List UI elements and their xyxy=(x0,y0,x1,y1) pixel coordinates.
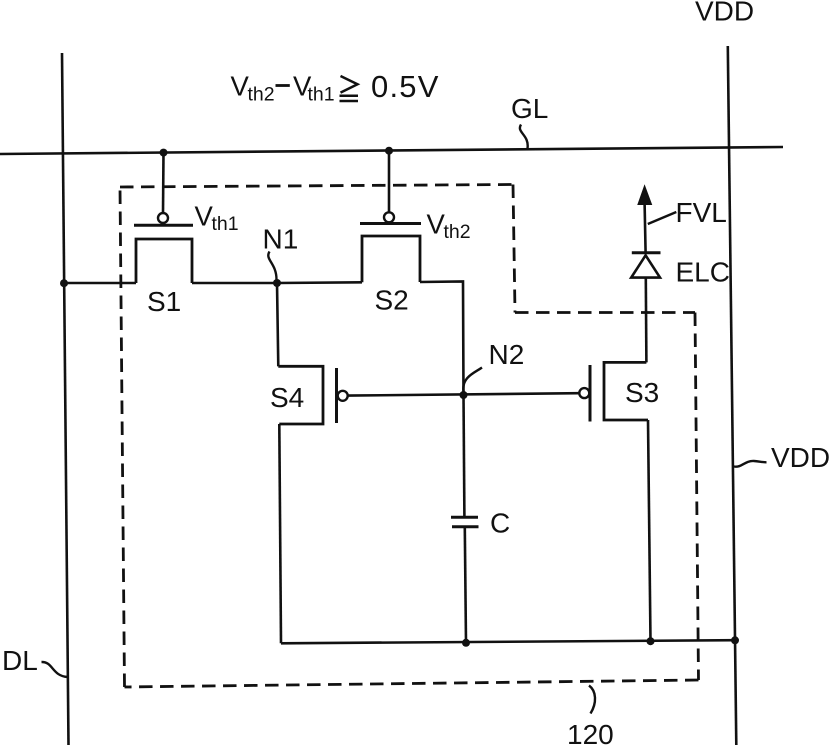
wire VDDL label leader xyxy=(734,461,767,467)
wire diode to arrow xyxy=(645,204,646,253)
node VDD label xyxy=(695,0,754,27)
value label Vth2-Vth1 >= 0.5V formula xyxy=(231,69,440,106)
svg-text:120: 120 xyxy=(567,719,614,745)
svg-text:th2: th2 xyxy=(444,221,471,243)
dashed pixel boundary box 120 xyxy=(120,185,699,688)
wire DL to S1 source xyxy=(64,282,136,285)
svg-text:FVL: FVL xyxy=(676,197,727,228)
wire DL label leader xyxy=(42,662,68,677)
wire bottom rail to VDD line xyxy=(281,640,735,643)
arrow to FVL xyxy=(638,186,651,204)
capacitor C label xyxy=(490,508,510,539)
svg-text:N1: N1 xyxy=(263,224,299,255)
svg-text:0.5V: 0.5V xyxy=(371,69,440,104)
wire N1 down to S4 xyxy=(277,283,278,366)
wire 120 label leader xyxy=(589,686,595,714)
value label Vth1 xyxy=(195,200,239,235)
svg-text:S2: S2 xyxy=(375,285,409,316)
wire power line VDD xyxy=(728,46,737,745)
greater-equal symbol of formula xyxy=(340,76,359,101)
diode ELC label xyxy=(676,257,730,288)
svg-text:GL: GL xyxy=(511,93,548,124)
svg-text:C: C xyxy=(490,508,510,539)
svg-text:ELC: ELC xyxy=(676,257,730,288)
node N2 label xyxy=(489,339,525,370)
diode ELC xyxy=(631,253,660,278)
wire GL label leader xyxy=(520,125,528,149)
node VDDL label xyxy=(771,442,832,473)
transistor S4 label xyxy=(270,382,304,413)
svg-text:VDD: VDD xyxy=(695,0,754,27)
transistor S3 xyxy=(579,362,648,421)
wire N1 label leader xyxy=(268,252,276,280)
wire capacitor to bottom rail xyxy=(465,528,466,643)
wire S3 drain down to bottom rail xyxy=(648,420,651,641)
wire diode to S3 xyxy=(644,278,647,363)
transistor S1 label xyxy=(147,286,181,317)
node N1 label xyxy=(263,224,299,255)
svg-text:S1: S1 xyxy=(147,286,181,317)
node GL label xyxy=(511,93,548,124)
svg-text:S3: S3 xyxy=(625,377,659,408)
wire N1 to S2 source xyxy=(277,281,362,284)
wire S4 gate to N2 to S3 gate xyxy=(348,393,579,395)
svg-text:th2: th2 xyxy=(248,84,275,106)
transistor S3 label xyxy=(625,377,659,408)
junction dot S3 on rail xyxy=(647,637,655,645)
node FVL label xyxy=(676,197,727,228)
transistor S2 label xyxy=(375,285,409,316)
wire N2 down to capacitor xyxy=(462,395,465,516)
svg-text:VDDL: VDDL xyxy=(771,442,832,473)
svg-text:N2: N2 xyxy=(489,339,525,370)
node N1 junction dot xyxy=(273,279,281,287)
junction dot on DL xyxy=(60,279,68,287)
wire data line DL xyxy=(62,53,69,745)
wire N2 label leader xyxy=(463,368,482,392)
junction dot S1 gate on GL xyxy=(160,149,168,157)
node N2 junction dot xyxy=(460,391,468,399)
node 120 label xyxy=(567,719,614,745)
wire gate line GL xyxy=(0,147,783,154)
wire S1 drain to node N1 xyxy=(192,282,277,285)
junction dot rail on VDD line xyxy=(731,636,739,644)
value label Vth2 xyxy=(427,209,471,244)
capacitor C xyxy=(451,517,479,527)
transistor S2 xyxy=(360,151,421,282)
junction dot S2 gate on GL xyxy=(385,147,393,155)
svg-text:th1: th1 xyxy=(212,213,239,235)
transistor S1 xyxy=(134,153,193,283)
junction dot capacitor on rail xyxy=(462,639,470,647)
svg-text:S4: S4 xyxy=(270,382,304,413)
node DL label xyxy=(2,645,38,676)
transistor S4 xyxy=(278,366,347,424)
minus sign of formula xyxy=(276,84,290,87)
wire S4 drain down to bottom rail xyxy=(279,424,281,643)
svg-text:DL: DL xyxy=(2,645,38,676)
wire S2 drain down to N2 xyxy=(420,282,464,396)
svg-text:th1: th1 xyxy=(308,84,335,106)
wire FVL label leader xyxy=(648,212,677,224)
